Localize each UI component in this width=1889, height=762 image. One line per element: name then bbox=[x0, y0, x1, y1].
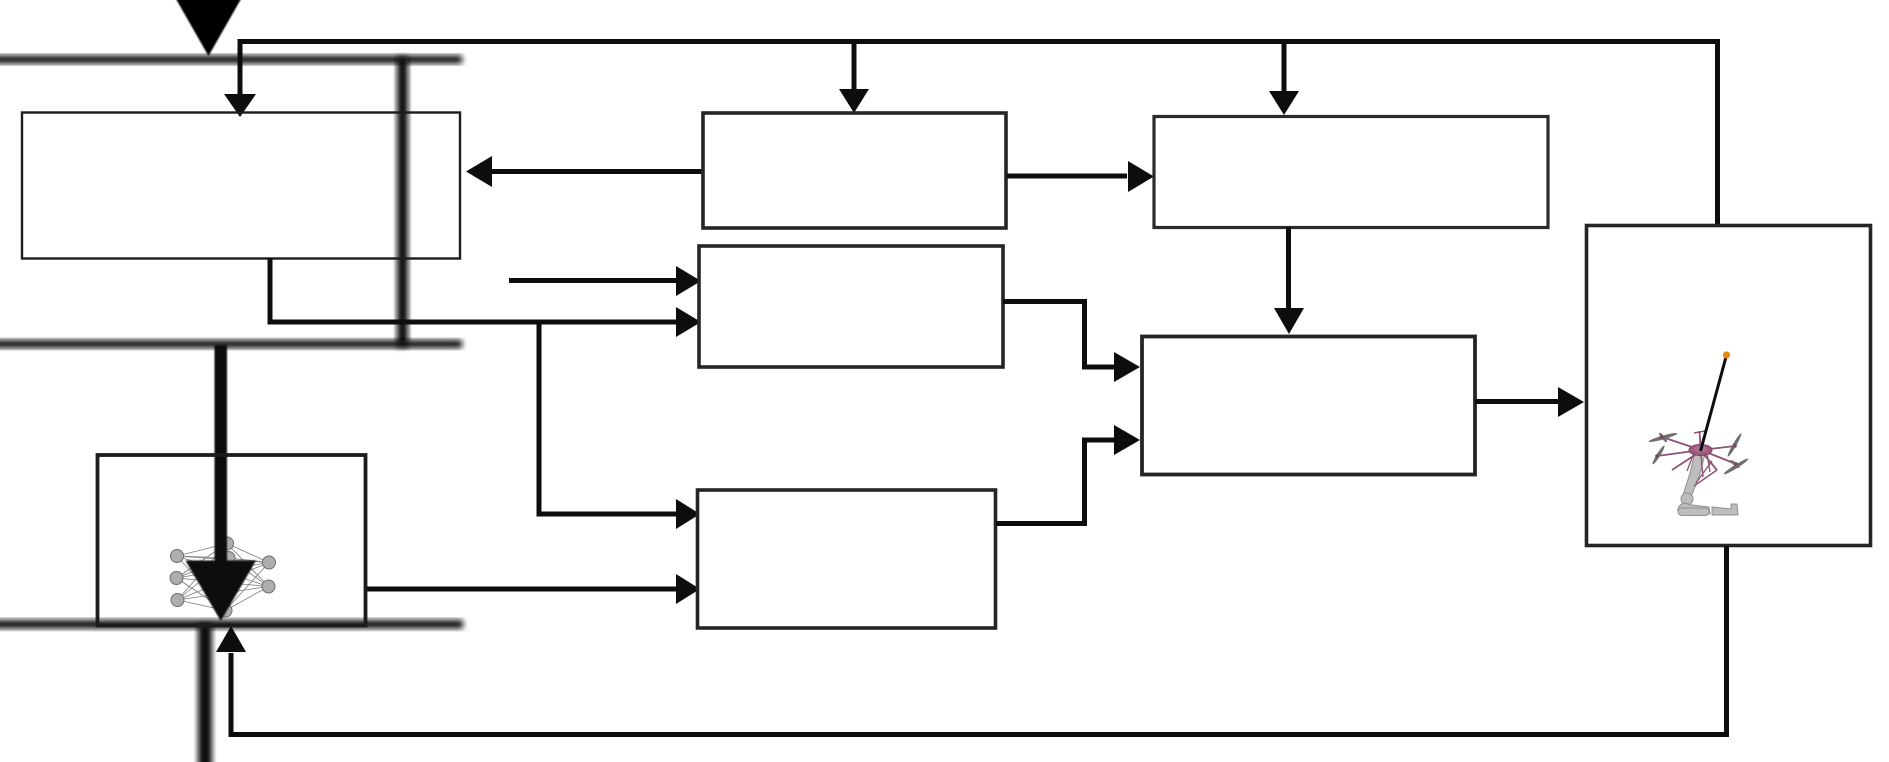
arrowhead into plant box bbox=[1558, 387, 1584, 417]
box: allocation (lower mid) bbox=[698, 490, 996, 628]
wire: allocation output to INDI input 2 bbox=[996, 440, 1114, 524]
box: estimator (right top) bbox=[1154, 117, 1548, 228]
arrowhead INDI input 2 bbox=[1114, 425, 1140, 455]
arrowhead into INDI top bbox=[1274, 308, 1304, 334]
wire: NMPC output to INDI input 1 bbox=[1003, 302, 1114, 368]
arrowhead into inner reference box bbox=[224, 94, 256, 117]
pendulum ball bbox=[1723, 351, 1730, 358]
blurred inset: magnified vertical wire stub bbox=[198, 624, 212, 762]
drone graphic in plant box bbox=[1648, 351, 1749, 515]
box: inner reference box (left, overlapped by inset) bbox=[22, 113, 460, 259]
hub struts below bbox=[1687, 453, 1717, 486]
wire: NN box output to allocation box bbox=[366, 587, 678, 592]
arrowhead input 1 allocation bbox=[676, 499, 700, 529]
wire: trajectory box to estimator box bbox=[1007, 174, 1127, 179]
wire: branch down to trajectory box bbox=[852, 42, 857, 92]
magnified big arrowhead entering inset box bbox=[172, 0, 245, 56]
pendulum rod bbox=[1701, 357, 1727, 451]
box: trajectory planner (mid top) bbox=[703, 113, 1006, 228]
neural network nodes bbox=[170, 537, 276, 617]
arrowhead input 2 allocation bbox=[676, 574, 700, 604]
wire: branch down from junction to allocation box bbox=[539, 322, 678, 514]
blurred inset: magnified box top edge bbox=[0, 56, 462, 64]
magnified thick arrowhead inside NN box bbox=[186, 561, 257, 622]
wire: reference box bottom to NMPC with branch bbox=[270, 258, 678, 322]
mast above hub bbox=[1700, 431, 1701, 447]
box: plant / simulator (big right) bbox=[1587, 226, 1871, 546]
propellers bbox=[1648, 432, 1749, 476]
arrowhead input 2 NMPC bbox=[676, 307, 701, 337]
blurred inset: magnified lower box edge bbox=[0, 620, 463, 629]
manipulator arm bbox=[1678, 452, 1738, 516]
neural network edges bbox=[177, 544, 270, 611]
rotor arms bbox=[1657, 437, 1736, 470]
blurred inset: magnified box right edge bbox=[397, 57, 408, 347]
wire: short reference input into NMPC box bbox=[509, 278, 678, 283]
wire: branch down to estimator box bbox=[1282, 42, 1287, 93]
arrowhead into estimator box left edge bbox=[1128, 161, 1154, 192]
hub body bbox=[1689, 445, 1712, 456]
arrowhead feedback into NN box bottom bbox=[216, 626, 246, 652]
wire: main top line with right drop to plant box bbox=[240, 42, 1718, 226]
magnified thick arrow shaft down to NN box bbox=[215, 345, 228, 563]
wire: INDI output to plant box bbox=[1475, 399, 1558, 404]
wire: estimator down to INDI box bbox=[1286, 227, 1291, 310]
motor dots bbox=[1655, 435, 1738, 466]
arrowhead into estimator box bbox=[1269, 91, 1299, 115]
box: neural network (lower left) bbox=[98, 455, 366, 626]
box: NMPC (mid second) bbox=[699, 246, 1003, 367]
wire: trajectory box to reference box bbox=[490, 169, 702, 174]
wire: feedback from plant bottom around to NN box bbox=[231, 546, 1727, 735]
box: INDI controller bbox=[1142, 337, 1475, 475]
arrowhead INDI input 1 bbox=[1114, 352, 1140, 382]
arrowhead into trajectory box bbox=[839, 89, 869, 113]
arrowhead into reference box right edge bbox=[466, 156, 492, 187]
blurred inset: magnified box bottom edge bbox=[0, 340, 462, 348]
arrowhead input 1 NMPC bbox=[676, 266, 701, 296]
